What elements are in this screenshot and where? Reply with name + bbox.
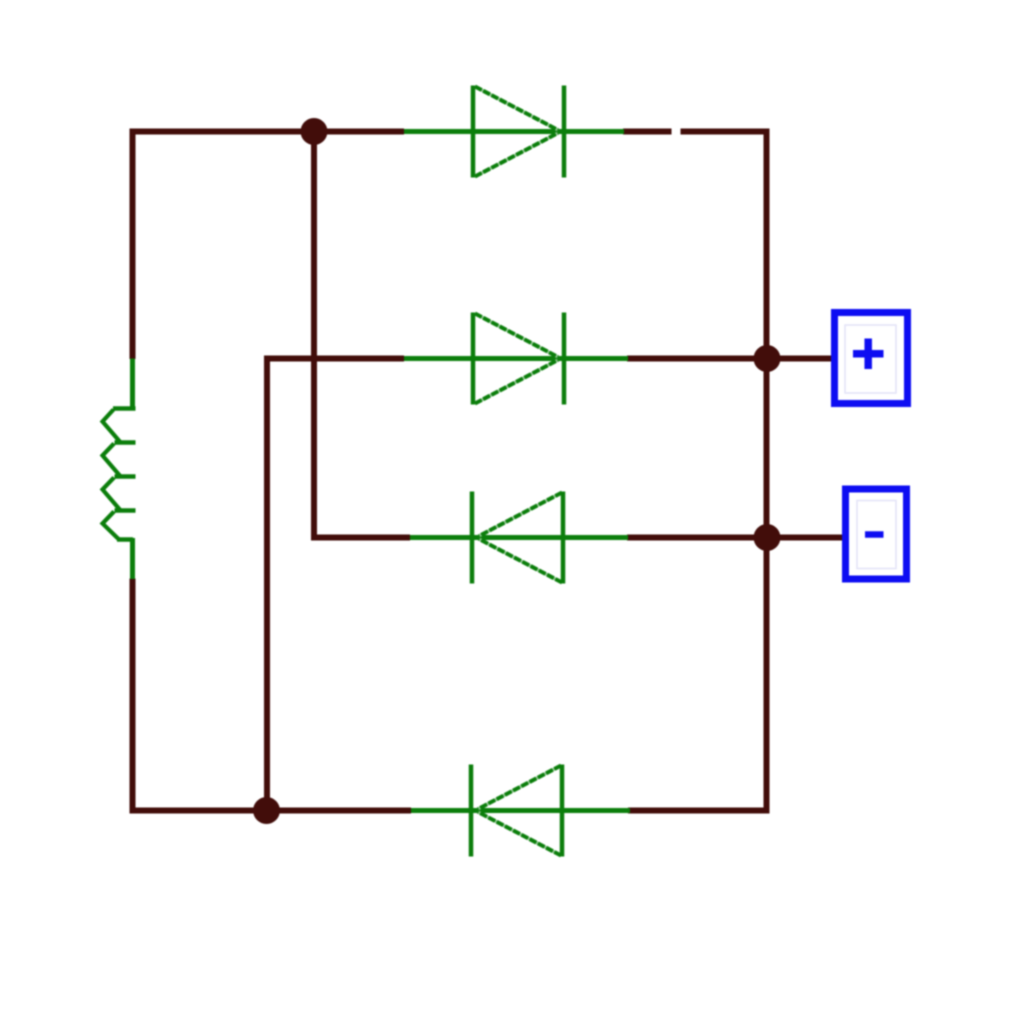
wire: top row horizontal (D1 cathode side, before gap): [623, 129, 672, 135]
wire: bottom row horizontal (D4 anode side to bottom-right corner): [628, 808, 770, 814]
wire: - junction to - terminal: [767, 535, 844, 541]
resistor R1: [103, 359, 136, 580]
junction dot: bottom node: [253, 797, 280, 824]
wire: right rail vertical (- junction down to bottom-right corner): [764, 538, 770, 814]
wire: row 2 horizontal (D2 cathode side to + junction): [627, 356, 767, 362]
wire: bottom row horizontal (junction to diode D4 lead): [267, 808, 412, 814]
wire: row 3 horizontal (D3 anode side to - junction): [627, 535, 767, 541]
diode D3 (row 3, pointing left): [410, 492, 628, 584]
junction dot: - node: [754, 524, 781, 551]
wire: vertical from row 2 left corner down to bottom junction: [264, 356, 270, 811]
diode D4 (bottom row, pointing left): [411, 765, 630, 857]
junction dot: + node: [754, 345, 781, 372]
wire: left rail vertical upper (corner down to resistor lead): [130, 129, 136, 360]
wire: left rail vertical lower (resistor lead down to bottom-left corner): [130, 579, 136, 814]
junction dot: top node: [301, 118, 328, 145]
wire: top row horizontal (left rail corner to top junction): [130, 129, 315, 135]
wire: top row horizontal (junction to diode D1 anode lead): [314, 129, 404, 135]
wire: vertical from top junction down to row 3 corner: [311, 132, 317, 538]
wire: + junction to + terminal: [767, 356, 833, 362]
wire: top row horizontal (after gap, to top-right corner): [681, 129, 770, 135]
terminal box -: [846, 489, 907, 579]
wire: row 3 horizontal (corner to diode D3 cathode lead): [311, 535, 410, 541]
wire: right rail vertical (+ junction down to - junction): [764, 359, 770, 538]
wire: row 2 horizontal (left corner to diode D2 anode lead): [267, 356, 404, 362]
terminal box +: [835, 313, 908, 404]
diode D2 (row 2, pointing right): [404, 313, 628, 405]
wire: right rail vertical (top-right corner down to + junction): [764, 129, 770, 359]
diode D1 (top row, pointing right): [404, 86, 624, 178]
wire: bottom row horizontal (bottom-left corner to junction): [130, 808, 267, 814]
